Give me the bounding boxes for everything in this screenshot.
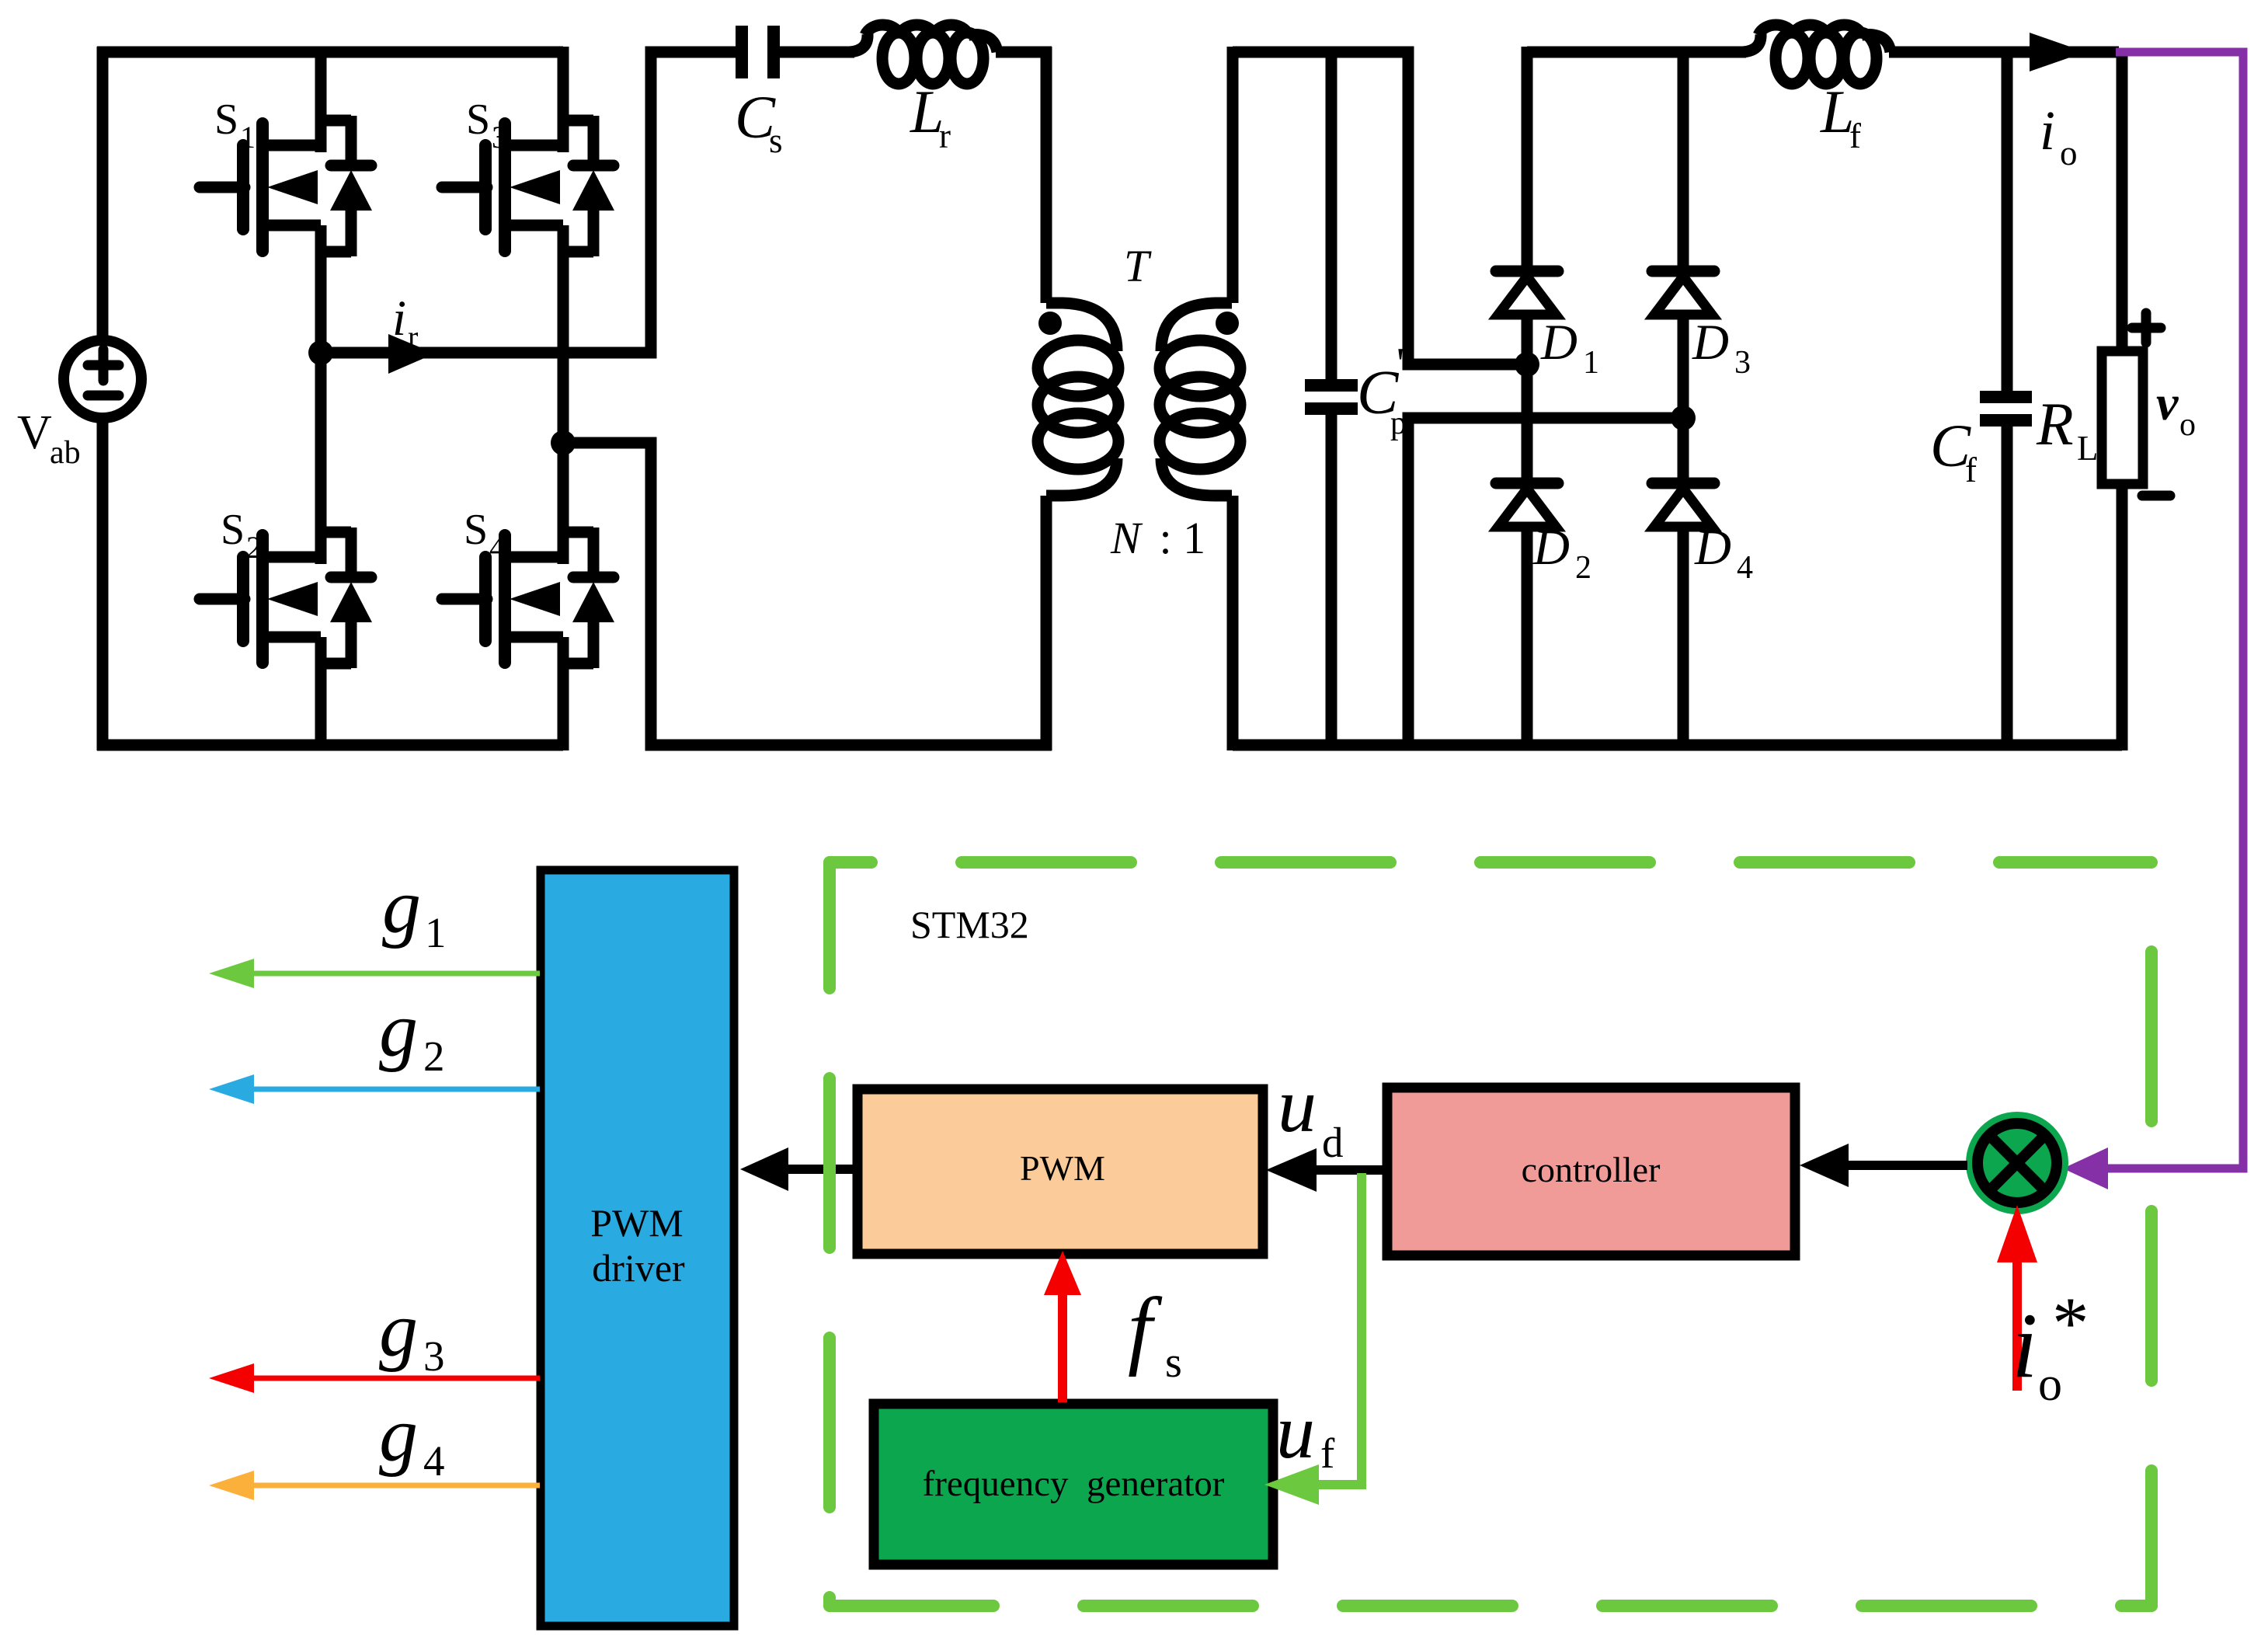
svg-text:3: 3 <box>492 120 507 155</box>
PWM block <box>857 1089 1263 1254</box>
svg-text:g: g <box>379 1391 418 1478</box>
svg-text:controller: controller <box>1522 1150 1661 1189</box>
svg-text:L: L <box>2077 429 2099 468</box>
svg-text:o: o <box>2179 407 2196 443</box>
wire: output section bottom rail <box>1233 740 2122 751</box>
svg-text:driver: driver <box>592 1246 685 1290</box>
capacitor C_f <box>1980 397 2032 420</box>
svg-text:*: * <box>2052 1282 2089 1364</box>
svg-text:s: s <box>1165 1339 1182 1387</box>
svg-text:f: f <box>1320 1429 1335 1477</box>
svg-text:s: s <box>769 121 783 160</box>
wire: node A to S2 drain <box>315 353 327 564</box>
svg-text:i: i <box>2040 99 2055 162</box>
svg-text:R: R <box>2036 390 2074 458</box>
wire: rectifier top rail <box>1527 47 1746 58</box>
wire: primary bottom lead <box>1041 496 1052 750</box>
svg-text:ab: ab <box>50 435 81 471</box>
wire: node B to primary return (corner down) <box>563 443 1052 745</box>
wire: node B to S4 drain <box>558 443 569 564</box>
wire: C_f branch upper <box>2002 52 2013 391</box>
STM32 dashed boundary <box>830 862 2151 1606</box>
label i_r <box>392 291 418 354</box>
node D1-D2 junction <box>1515 352 1539 377</box>
label D_2 <box>1532 520 1591 586</box>
gate signal g1 arrow (green) <box>209 959 540 988</box>
wire: inverter top rail <box>97 47 563 58</box>
svg-text:S: S <box>214 96 238 144</box>
svg-text:1: 1 <box>240 120 256 155</box>
svg-text:PWM: PWM <box>1020 1148 1105 1188</box>
svg-text:3: 3 <box>1734 345 1751 381</box>
svg-text:S: S <box>221 506 245 554</box>
svg-text:T: T <box>1124 241 1152 291</box>
svg-text:: 1: : 1 <box>1148 513 1205 563</box>
signal f_s arrow (red) generator to PWM <box>1044 1251 1081 1402</box>
signal u_d arrow (black) controller to PWM <box>1266 1148 1387 1192</box>
transformer secondary polarity dot <box>1216 312 1239 335</box>
node B junction <box>551 430 576 455</box>
wire: L_r to primary corner <box>996 47 1052 58</box>
inductor L_r <box>850 25 997 84</box>
PWM driver block <box>541 870 734 1626</box>
wire: D3 anode to D4 cathode <box>1678 315 1689 489</box>
wire: S3 source to node B <box>558 225 569 448</box>
reference i_o* arrow (red) <box>1997 1205 2037 1391</box>
wire: D4 anode to bottom rail <box>1678 527 1689 750</box>
svg-text:g: g <box>379 987 418 1073</box>
current arrow i_o <box>2030 33 2085 71</box>
svg-text:i: i <box>392 291 406 346</box>
wire: R_L top lead <box>2117 52 2128 356</box>
svg-text:3: 3 <box>423 1332 445 1380</box>
wire: secondary top lead <box>1227 47 1239 303</box>
svg-text:d: d <box>1322 1119 1344 1166</box>
gate signal g4 arrow (orange) <box>209 1471 540 1500</box>
wire: D1 anode to D2 cathode <box>1522 315 1533 489</box>
signal u_f wire (green) to frequency generator <box>1318 1173 1362 1485</box>
capacitor C_p' <box>1305 385 1358 409</box>
arrow multiplier to controller (black) <box>1800 1144 1967 1187</box>
node A junction <box>308 340 333 365</box>
svg-text:o: o <box>2060 134 2078 172</box>
svg-text:N: N <box>1110 513 1143 563</box>
wire: secondary top to rectifier upper input <box>1233 52 1527 364</box>
wire: C_p branch lower <box>1326 409 1337 750</box>
svg-text:2: 2 <box>423 1032 445 1080</box>
wire: inverter left wall (upper) <box>97 47 109 339</box>
label f_s <box>1128 1280 1182 1387</box>
node D3-D4 junction <box>1671 406 1696 430</box>
transistor S4 <box>442 506 614 668</box>
svg-text:i: i <box>2012 1294 2037 1397</box>
current arrow i_r <box>388 334 435 374</box>
minus sign of v_o <box>2142 491 2170 501</box>
label g_3 <box>379 1287 445 1380</box>
label v_o <box>2156 375 2196 443</box>
feedback wire (purple) from output node <box>2106 52 2243 1168</box>
transformer T secondary winding <box>1160 303 1240 496</box>
controller block <box>1387 1088 1795 1255</box>
transformer T primary winding <box>1038 303 1118 496</box>
svg-text:1: 1 <box>1583 345 1599 381</box>
diode D4 <box>1652 483 1714 527</box>
signal u_f arrowhead (green) <box>1264 1464 1319 1505</box>
resistor R_L <box>2102 351 2143 484</box>
svg-text:PWM: PWM <box>590 1201 683 1245</box>
voltage source V_ab <box>64 340 141 418</box>
gate signal g2 arrow (blue) <box>209 1074 540 1104</box>
gate signal g3 arrow (red) <box>209 1363 540 1393</box>
label C_s <box>735 83 783 160</box>
wire: D2 anode to bottom rail <box>1522 527 1533 750</box>
diode D3 <box>1652 271 1714 315</box>
label L_r <box>910 78 951 155</box>
svg-text:f: f <box>1849 117 1861 155</box>
wire: R_L bottom lead <box>2117 484 2128 750</box>
svg-text:4: 4 <box>489 530 505 565</box>
svg-text:': ' <box>1397 339 1404 388</box>
capacitor C_s <box>742 26 774 78</box>
svg-text:2: 2 <box>246 530 262 565</box>
label V_ab <box>17 406 81 471</box>
transistor S2 <box>200 506 372 668</box>
label g_4 <box>379 1391 445 1485</box>
label u_f <box>1276 1388 1335 1477</box>
diode D2 <box>1496 483 1558 527</box>
plus sign of v_o <box>2132 313 2161 343</box>
svg-text:u: u <box>1278 1062 1317 1148</box>
svg-text:D: D <box>1694 520 1731 576</box>
wire: D3 leg from top rail <box>1678 47 1689 277</box>
svg-text:V: V <box>17 406 52 459</box>
svg-text:D: D <box>1532 520 1570 576</box>
frequency generator block <box>874 1404 1273 1565</box>
svg-text:r: r <box>939 117 951 155</box>
wire: rectifier lower input <box>1408 418 1683 745</box>
svg-text:S: S <box>464 506 488 554</box>
label R_L <box>2036 390 2099 468</box>
svg-text:STM32: STM32 <box>910 903 1029 946</box>
wire: C_p branch upper <box>1326 47 1337 385</box>
svg-text:u: u <box>1276 1388 1315 1475</box>
wire: S4 source to bottom rail <box>558 637 569 750</box>
wire: S3 drain from top rail <box>558 47 569 152</box>
transistor S1 <box>200 96 372 256</box>
label C_p' <box>1357 339 1407 441</box>
wire: secondary bottom lead <box>1227 496 1239 750</box>
svg-text:2: 2 <box>1575 550 1591 586</box>
svg-text:D: D <box>1540 315 1578 371</box>
transistor S3 <box>442 96 614 256</box>
svg-text:4: 4 <box>423 1437 445 1485</box>
wire: S2 source to bottom rail <box>315 637 327 750</box>
svg-text:g: g <box>379 1287 418 1373</box>
wire: L_f to output node <box>1889 47 2119 58</box>
label N:1 <box>1110 513 1205 563</box>
svg-text:S: S <box>466 96 490 144</box>
label D_3 <box>1692 315 1751 381</box>
wire: primary top lead <box>1041 47 1052 303</box>
label D_1 <box>1540 315 1599 381</box>
wire: D1 leg from top rail <box>1522 47 1533 277</box>
wire: inverter left wall (lower) <box>97 418 109 750</box>
svg-text:4: 4 <box>1737 550 1753 586</box>
svg-text:f: f <box>1965 451 1977 489</box>
label i_o <box>2040 99 2078 172</box>
svg-text:1: 1 <box>425 909 447 956</box>
svg-text:o: o <box>2038 1358 2062 1411</box>
svg-text:v: v <box>2156 375 2179 430</box>
label C_f <box>1930 412 1977 489</box>
wire: node A to resonant loop (with corner up) <box>321 52 742 353</box>
diode D1 <box>1496 271 1558 315</box>
label g_2 <box>379 987 445 1080</box>
label u_d <box>1278 1062 1344 1166</box>
svg-text:D: D <box>1692 315 1729 371</box>
multiplier node (green circle with X) <box>1966 1112 2068 1214</box>
label PWM driver <box>590 1201 685 1290</box>
feedback arrowhead (purple) into multiplier <box>2063 1147 2108 1189</box>
svg-text:g: g <box>382 863 421 949</box>
wire: S1 source to node A <box>315 225 327 358</box>
wire: C_f branch lower <box>2002 420 2013 750</box>
label i_o* <box>2012 1282 2089 1411</box>
svg-text:r: r <box>408 319 418 354</box>
label D_4 <box>1694 520 1753 586</box>
inductor L_f <box>1743 25 1891 84</box>
arrow PWM to PWM driver (black) <box>740 1147 857 1191</box>
wire: C_s to L_r <box>774 47 854 58</box>
wire: inverter bottom rail <box>97 740 563 751</box>
svg-text:frequency generator: frequency generator <box>923 1464 1225 1504</box>
wire: S1 drain from top rail <box>315 52 327 152</box>
transformer primary polarity dot <box>1038 312 1062 335</box>
label g_1 <box>382 863 447 956</box>
label L_f <box>1820 78 1861 155</box>
svg-text:f: f <box>1128 1280 1163 1377</box>
